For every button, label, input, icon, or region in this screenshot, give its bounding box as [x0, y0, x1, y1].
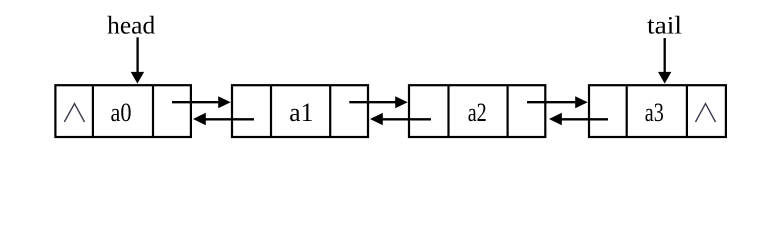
- svg-text:a1: a1: [289, 97, 313, 127]
- svg-text:tail: tail: [647, 13, 682, 40]
- svg-text:a2: a2: [468, 97, 487, 127]
- svg-text:head: head: [107, 13, 155, 40]
- svg-text:a0: a0: [111, 97, 132, 127]
- svg-text:a3: a3: [645, 97, 664, 127]
